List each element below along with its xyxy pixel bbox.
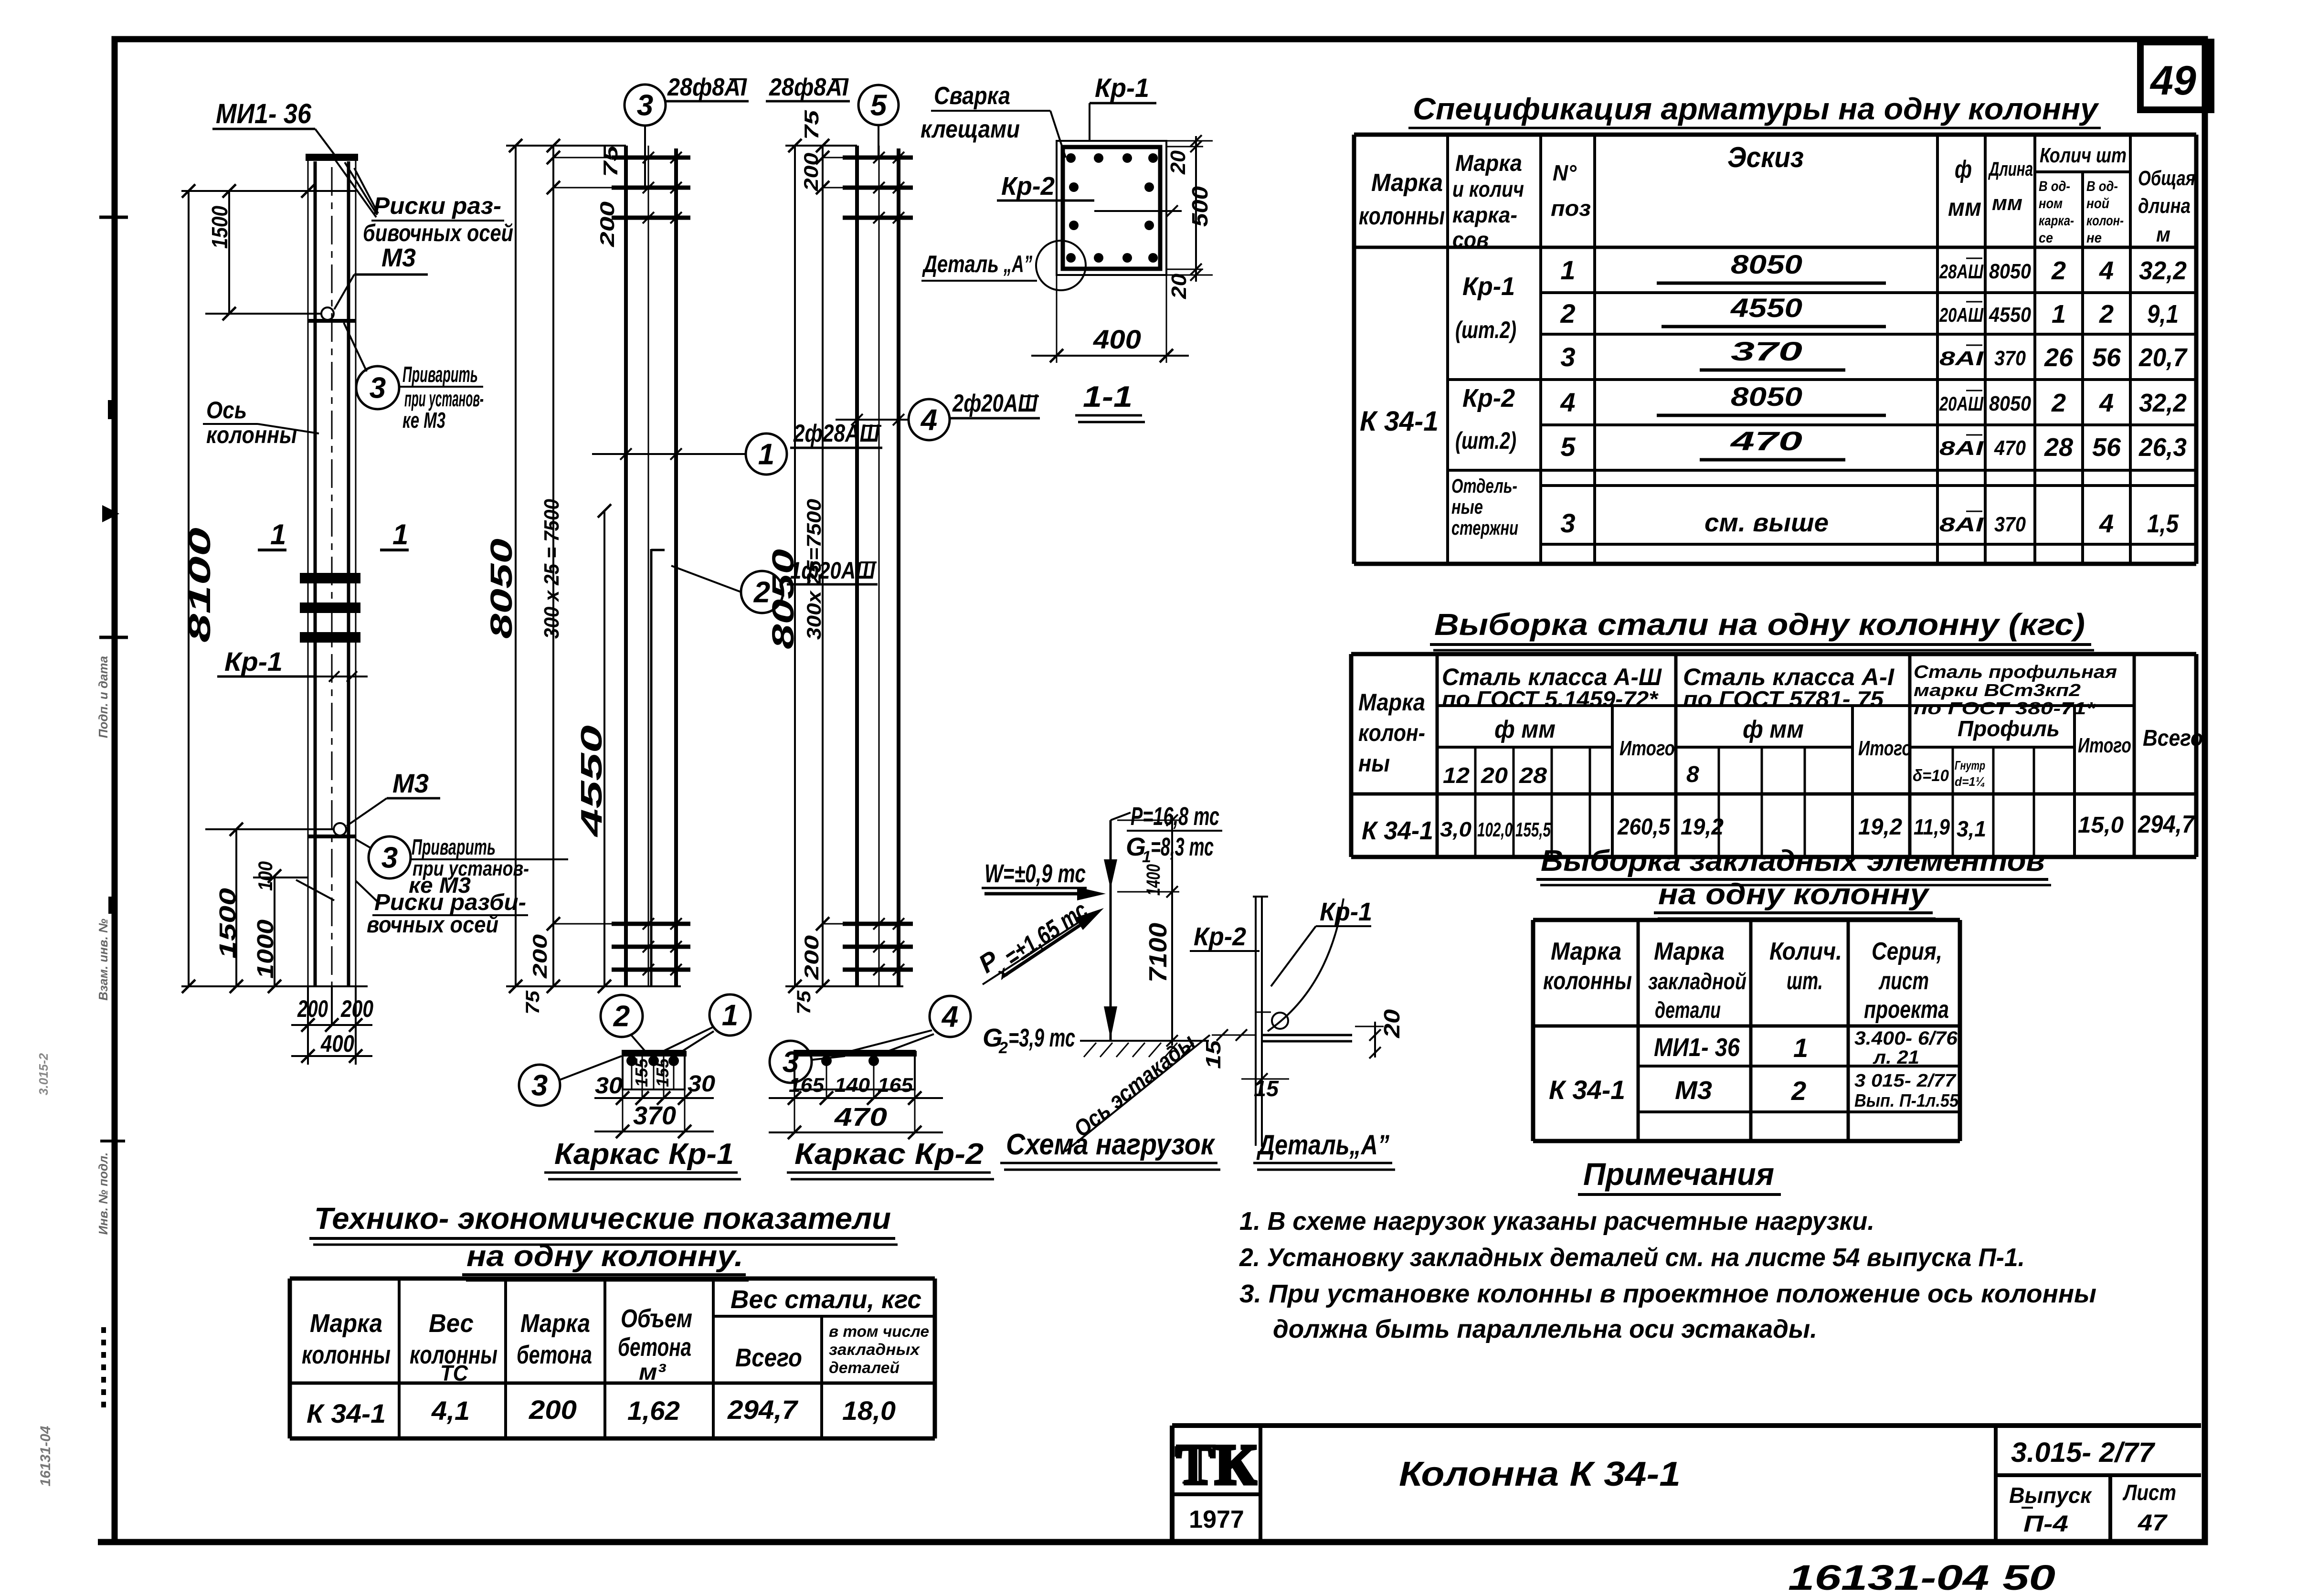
svg-text:на одну колонну: на одну колонну (1658, 878, 1930, 911)
svg-text:4550: 4550 (1730, 293, 1802, 323)
svg-text:К 34-1: К 34-1 (1549, 1075, 1625, 1105)
svg-text:Колич шт: Колич шт (2040, 144, 2127, 167)
svg-text:Марка: Марка (1371, 169, 1443, 197)
svg-text:Итого: Итого (1858, 737, 1912, 760)
svg-text:ТС: ТС (440, 1361, 468, 1385)
svg-text:1500: 1500 (207, 206, 232, 249)
svg-text:8050: 8050 (484, 539, 519, 639)
svg-text:шт.: шт. (1787, 967, 1823, 995)
svg-text:1,62: 1,62 (627, 1395, 680, 1426)
svg-text:колон-: колон- (2086, 213, 2124, 229)
svg-text:Выборка закладных элементов: Выборка закладных элементов (1541, 845, 2045, 877)
svg-text:Марка: Марка (520, 1309, 590, 1338)
svg-text:200: 200 (800, 935, 823, 980)
svg-text:Объем: Объем (621, 1304, 692, 1333)
svg-text:4: 4 (941, 1001, 958, 1034)
svg-text:1-1: 1-1 (1083, 381, 1133, 413)
svg-text:49: 49 (2149, 58, 2196, 104)
svg-text:в том числе: в том числе (829, 1322, 929, 1340)
svg-text:колонны: колонны (206, 422, 297, 448)
svg-text:Примечания: Примечания (1583, 1156, 1774, 1192)
svg-text:1500: 1500 (215, 888, 241, 959)
svg-text:по ГОСТ 5781- 75: по ГОСТ 5781- 75 (1683, 687, 1884, 711)
svg-text:8АI: 8АI (1939, 347, 1984, 370)
svg-text:мм: мм (1992, 191, 2022, 215)
svg-text:„А”: „А” (1003, 251, 1032, 277)
svg-text:8050: 8050 (1989, 392, 2031, 415)
svg-text:d=1¼: d=1¼ (1955, 774, 1985, 789)
svg-text:155: 155 (632, 1058, 651, 1087)
svg-text:18,0: 18,0 (842, 1395, 896, 1426)
svg-text:15: 15 (1254, 1076, 1279, 1101)
svg-text:1,5: 1,5 (2147, 509, 2179, 538)
svg-text:Марка: Марка (1455, 151, 1522, 176)
svg-text:15: 15 (1202, 1040, 1225, 1069)
svg-text:W=±0,9 тс: W=±0,9 тс (984, 859, 1086, 888)
svg-text:2: 2 (2051, 389, 2066, 417)
svg-text:140: 140 (835, 1074, 870, 1096)
svg-text:(шт.2): (шт.2) (1455, 427, 1516, 454)
svg-text:К 34-1: К 34-1 (1360, 406, 1439, 437)
svg-text:Кр-1: Кр-1 (1462, 272, 1515, 301)
svg-text:470: 470 (1730, 426, 1802, 456)
svg-text:1: 1 (2052, 300, 2066, 328)
svg-text:47: 47 (2138, 1511, 2168, 1536)
svg-text:26: 26 (2044, 343, 2074, 372)
svg-text:16131-04 50: 16131-04 50 (1788, 1558, 2055, 1596)
svg-text:75: 75 (794, 990, 815, 1015)
svg-text:Сварка: Сварка (934, 82, 1010, 110)
svg-text:12: 12 (1443, 763, 1470, 788)
svg-text:500: 500 (1187, 186, 1212, 227)
svg-text:1: 1 (758, 438, 774, 471)
svg-text:Деталь: Деталь (922, 251, 999, 277)
svg-text:28: 28 (2044, 433, 2073, 462)
svg-text:детали: детали (1655, 998, 1721, 1023)
svg-text:колонны: колонны (302, 1341, 391, 1369)
svg-text:1: 1 (1142, 848, 1151, 866)
svg-text:=8,3 тс: =8,3 тс (1151, 833, 1214, 861)
svg-text:3,1: 3,1 (1957, 816, 1986, 841)
svg-text:20: 20 (1166, 150, 1190, 175)
svg-text:26,3: 26,3 (2138, 433, 2187, 462)
svg-text:4: 4 (2099, 256, 2114, 285)
svg-text:ной: ной (2086, 196, 2109, 211)
svg-text:56: 56 (2092, 433, 2121, 462)
svg-text:15,0: 15,0 (2078, 813, 2124, 838)
svg-text:Гнутр: Гнутр (1955, 758, 1985, 772)
svg-text:16131-04: 16131-04 (38, 1426, 53, 1486)
svg-text:19,2: 19,2 (1858, 814, 1902, 840)
svg-text:470: 470 (834, 1103, 887, 1131)
svg-text:Длина: Длина (1988, 158, 2033, 180)
svg-text:2: 2 (613, 1000, 630, 1033)
svg-text:Риски разби-: Риски разби- (374, 890, 526, 915)
svg-text:75: 75 (522, 990, 543, 1015)
svg-text:102,0: 102,0 (1477, 818, 1513, 841)
svg-text:стержни: стержни (1451, 517, 1518, 539)
svg-text:Технико- экономические пока: Технико- экономические показатели (314, 1201, 891, 1236)
svg-text:3. При установке колонны в: 3. При установке колонны в проектное пол… (1239, 1279, 2096, 1308)
svg-text:19,2: 19,2 (1681, 814, 1724, 840)
svg-text:1400: 1400 (1143, 864, 1164, 896)
svg-text:155,5: 155,5 (1515, 818, 1551, 841)
svg-text:и колич: и колич (1452, 177, 1524, 201)
svg-text:мм: мм (1948, 194, 1981, 222)
svg-text:Всего: Всего (735, 1343, 802, 1372)
svg-text:ке М3: ке М3 (402, 408, 445, 433)
svg-text:2: 2 (1791, 1076, 1806, 1106)
svg-text:бивочных осей: бивочных осей (363, 220, 513, 246)
svg-text:3.015- 2/77: 3.015- 2/77 (2011, 1437, 2156, 1468)
svg-text:закладной: закладной (1648, 969, 1746, 994)
svg-text:32,2: 32,2 (2139, 389, 2187, 417)
svg-text:Профиль: Профиль (1958, 716, 2060, 741)
svg-text:ф мм: ф мм (1743, 716, 1804, 743)
svg-text:ф: ф (1955, 156, 1972, 183)
svg-text:Отдель-: Отдель- (1451, 475, 1517, 497)
svg-text:3: 3 (783, 1046, 799, 1079)
svg-text:ны: ны (1358, 750, 1390, 777)
svg-text:Кр-2: Кр-2 (1462, 384, 1515, 412)
svg-text:4: 4 (1560, 387, 1575, 417)
svg-text:8: 8 (1686, 762, 1699, 787)
svg-text:200: 200 (297, 995, 328, 1022)
svg-text:М3: М3 (381, 243, 416, 272)
svg-text:Марка: Марка (1551, 938, 1621, 965)
svg-text:100: 100 (254, 861, 276, 891)
svg-text:1: 1 (722, 999, 738, 1032)
svg-text:20АШ: 20АШ (1939, 392, 1983, 415)
svg-text:3.400- 6/76: 3.400- 6/76 (1854, 1028, 1958, 1049)
svg-text:1: 1 (270, 518, 286, 550)
svg-text:200: 200 (340, 995, 373, 1022)
svg-text:Лист: Лист (2122, 1480, 2176, 1505)
svg-text:200: 200 (529, 934, 551, 979)
svg-text:8050: 8050 (766, 549, 800, 649)
svg-text:30: 30 (595, 1073, 623, 1099)
svg-text:δ=10: δ=10 (1913, 767, 1949, 785)
svg-text:Вып. П-1л.55: Вып. П-1л.55 (1854, 1091, 1959, 1111)
svg-text:4: 4 (920, 404, 937, 437)
svg-text:карка-: карка- (2039, 213, 2074, 229)
svg-text:400: 400 (320, 1030, 354, 1057)
svg-text:л. 21: л. 21 (1873, 1047, 1919, 1068)
svg-text:8АI: 8АI (1939, 513, 1984, 536)
svg-text:300х 25=7500: 300х 25=7500 (803, 499, 825, 640)
svg-text:4: 4 (2099, 389, 2114, 417)
svg-text:закладных: закладных (829, 1341, 921, 1358)
svg-text:370: 370 (1994, 513, 2026, 536)
svg-text:Ось: Ось (206, 397, 247, 423)
svg-text:56: 56 (2092, 343, 2121, 372)
svg-text:20: 20 (1379, 1009, 1404, 1039)
svg-text:1: 1 (1793, 1033, 1808, 1063)
svg-text:Общая: Общая (2138, 167, 2195, 190)
svg-text:1: 1 (392, 518, 408, 550)
svg-text:4: 4 (2099, 509, 2114, 538)
svg-text:Каркас Кр-1: Каркас Кр-1 (554, 1138, 734, 1171)
svg-text:Приварить: Приварить (402, 362, 478, 387)
svg-text:155: 155 (653, 1058, 672, 1087)
svg-text:поз: поз (1551, 196, 1591, 221)
svg-text:3: 3 (1560, 508, 1575, 538)
svg-text:75: 75 (599, 145, 622, 177)
svg-text:3: 3 (1560, 342, 1575, 372)
svg-text:К 34-1: К 34-1 (1362, 816, 1433, 845)
svg-text:Вес: Вес (429, 1309, 474, 1338)
svg-text:165: 165 (878, 1074, 913, 1096)
svg-text:колонны: колонны (1359, 202, 1445, 230)
svg-text:Спецификация арматуры на од: Спецификация арматуры на одну колонну (1413, 92, 2100, 126)
svg-text:200: 200 (596, 201, 618, 247)
svg-text:4,1: 4,1 (431, 1395, 470, 1426)
svg-text:Вес стали, кгс: Вес стали, кгс (730, 1285, 921, 1314)
svg-text:М3: М3 (1675, 1076, 1712, 1105)
svg-text:N°: N° (1553, 160, 1577, 185)
svg-text:Кр-1: Кр-1 (1320, 898, 1372, 926)
svg-text:1. В схеме нагрузок указаны: 1. В схеме нагрузок указаны расчетные на… (1239, 1207, 1874, 1236)
svg-text:Приварить: Приварить (412, 835, 496, 859)
svg-text:8050: 8050 (1731, 381, 1802, 412)
svg-text:К 34-1: К 34-1 (307, 1398, 386, 1428)
svg-text:Риски раз-: Риски раз- (373, 192, 501, 219)
svg-text:=3,9 тс: =3,9 тс (1008, 1024, 1075, 1052)
svg-text:8АI: 8АI (1939, 437, 1984, 459)
svg-text:бетона: бетона (618, 1333, 691, 1362)
svg-text:Колич.: Колич. (1769, 938, 1842, 965)
svg-text:проекта: проекта (1864, 996, 1949, 1024)
svg-text:3.015-2: 3.015-2 (36, 1053, 51, 1095)
svg-text:3,0: 3,0 (1440, 818, 1472, 841)
svg-text:28АШ: 28АШ (1939, 260, 1983, 283)
svg-text:ном: ном (2039, 196, 2063, 211)
svg-text:се: се (2039, 230, 2053, 246)
svg-text:Подп. и дата: Подп. и дата (96, 656, 110, 738)
svg-text:ф мм: ф мм (1494, 716, 1556, 743)
svg-text:2: 2 (2051, 256, 2066, 285)
svg-text:20,7: 20,7 (2138, 343, 2188, 372)
svg-text:470: 470 (1994, 436, 2026, 460)
svg-text:4550: 4550 (575, 725, 608, 838)
svg-text:3 015- 2/77: 3 015- 2/77 (1854, 1071, 1957, 1091)
svg-text:МИ1- 36: МИ1- 36 (216, 98, 312, 129)
svg-text:Схема нагрузок: Схема нагрузок (1006, 1128, 1215, 1161)
svg-text:2: 2 (1560, 298, 1575, 328)
svg-text:по ГОСТ 380-71*: по ГОСТ 380-71* (1914, 698, 2096, 718)
svg-text:Выборка стали на одну коло: Выборка стали на одну колонну (кгс) (1434, 607, 2085, 642)
svg-text:Итого: Итого (1619, 737, 1675, 760)
svg-text:300 х 25 = 7500: 300 х 25 = 7500 (540, 499, 563, 639)
svg-text:20АШ: 20АШ (1939, 304, 1983, 326)
svg-text:Выпуск: Выпуск (2009, 1483, 2093, 1508)
svg-text:200: 200 (529, 1395, 577, 1425)
svg-text:200: 200 (800, 153, 822, 191)
svg-text:400: 400 (1093, 324, 1141, 354)
svg-text:8050: 8050 (1989, 260, 2031, 283)
svg-text:м: м (2156, 223, 2170, 246)
svg-text:260,5: 260,5 (1617, 814, 1671, 840)
svg-text:8050: 8050 (1731, 249, 1802, 279)
svg-text:деталей: деталей (829, 1359, 900, 1376)
svg-text:Серия,: Серия, (1872, 938, 1942, 965)
svg-text:Марка: Марка (1358, 689, 1425, 716)
svg-text:вочных осей: вочных осей (367, 912, 498, 938)
svg-text:3: 3 (637, 89, 653, 122)
svg-text:см. выше: см. выше (1704, 508, 1829, 537)
svg-text:20: 20 (1481, 763, 1508, 788)
svg-text:9,1: 9,1 (2147, 300, 2179, 328)
svg-text:Каркас Кр-2: Каркас Кр-2 (794, 1138, 984, 1171)
svg-text:Взам. инв. №: Взам. инв. № (96, 919, 110, 1001)
svg-text:Кр-2: Кр-2 (1194, 922, 1246, 951)
svg-text:Марка: Марка (1654, 938, 1725, 965)
svg-text:Колонна К 34-1: Колонна К 34-1 (1399, 1455, 1681, 1493)
svg-text:Эскиз: Эскиз (1727, 141, 1804, 173)
svg-text:7100: 7100 (1144, 923, 1172, 983)
svg-text:М3: М3 (392, 768, 429, 798)
svg-text:3: 3 (370, 372, 386, 405)
svg-text:Всего: Всего (2143, 726, 2203, 751)
svg-text:3: 3 (381, 842, 398, 875)
svg-text:32,2: 32,2 (2139, 256, 2187, 285)
svg-text:сов: сов (1452, 227, 1489, 252)
svg-text:Кр-1: Кр-1 (224, 646, 283, 676)
svg-text:2ф28АШ: 2ф28АШ (793, 420, 880, 447)
svg-text:1977: 1977 (1189, 1506, 1244, 1533)
svg-text:клещами: клещами (921, 116, 1020, 143)
svg-text:294,7: 294,7 (727, 1395, 799, 1425)
svg-text:5: 5 (1560, 432, 1576, 462)
svg-text:3: 3 (531, 1069, 548, 1102)
svg-text:длина: длина (2138, 194, 2191, 218)
svg-text:2: 2 (998, 1039, 1008, 1057)
svg-text:75: 75 (800, 110, 823, 140)
svg-text:1: 1 (1560, 255, 1575, 285)
svg-text:2ф20АШ: 2ф20АШ (952, 390, 1038, 417)
svg-text:Деталь„А”: Деталь„А” (1256, 1130, 1389, 1161)
svg-text:бетона: бетона (517, 1341, 592, 1369)
svg-text:Инв. № подл.: Инв. № подл. (96, 1152, 110, 1235)
svg-text:МИ1- 36: МИ1- 36 (1654, 1033, 1740, 1062)
svg-text:8100: 8100 (182, 528, 217, 643)
svg-text:370: 370 (633, 1101, 676, 1130)
svg-text:2. Установку закладных детал: 2. Установку закладных деталей см. на ли… (1239, 1243, 2025, 1272)
svg-text:1000: 1000 (253, 920, 278, 979)
svg-text:Марка: Марка (310, 1309, 382, 1338)
svg-text:Сталь профильная: Сталь профильная (1914, 662, 2117, 682)
svg-text:должна быть параллельна оси: должна быть параллельна оси эстакады. (1273, 1315, 1817, 1343)
svg-text:2: 2 (2099, 300, 2114, 328)
svg-text:30: 30 (688, 1071, 715, 1097)
svg-text:Итого: Итого (2078, 734, 2131, 757)
svg-text:на одну колонну.: на одну колонну. (466, 1240, 743, 1273)
svg-text:Кр-1: Кр-1 (1095, 73, 1149, 103)
svg-text:28ф8АI: 28ф8АI (769, 74, 849, 101)
svg-text:по ГОСТ 5.1459-72*: по ГОСТ 5.1459-72* (1442, 687, 1659, 711)
svg-text:28: 28 (1519, 763, 1547, 788)
svg-text:4550: 4550 (1989, 303, 2031, 327)
svg-text:В од-: В од- (2039, 179, 2070, 194)
svg-text:колонны: колонны (1543, 967, 1632, 995)
svg-text:марки ВСт3кп2: марки ВСт3кп2 (1914, 680, 2081, 700)
svg-text:ные: ные (1451, 496, 1483, 518)
svg-text:колон-: колон- (1358, 719, 1425, 746)
svg-text:П-4: П-4 (2023, 1511, 2068, 1537)
svg-text:370: 370 (1994, 347, 2026, 370)
svg-text:лист: лист (1878, 967, 1929, 995)
svg-text:5: 5 (870, 89, 888, 122)
svg-text:ТК: ТК (1176, 1433, 1256, 1496)
svg-text:28ф8АI: 28ф8АI (667, 74, 747, 101)
svg-text:В од-: В од- (2086, 179, 2118, 194)
svg-text:Кр-2: Кр-2 (1001, 172, 1055, 201)
svg-text:20: 20 (1167, 273, 1191, 299)
svg-text:м³: м³ (639, 1360, 667, 1385)
svg-text:не: не (2086, 230, 2102, 246)
svg-text:карка-: карка- (1452, 202, 1517, 227)
svg-text:11,9: 11,9 (1914, 814, 1950, 839)
svg-text:(шт.2): (шт.2) (1455, 317, 1516, 343)
svg-text:370: 370 (1731, 336, 1802, 366)
svg-text:294,7: 294,7 (2138, 811, 2195, 838)
